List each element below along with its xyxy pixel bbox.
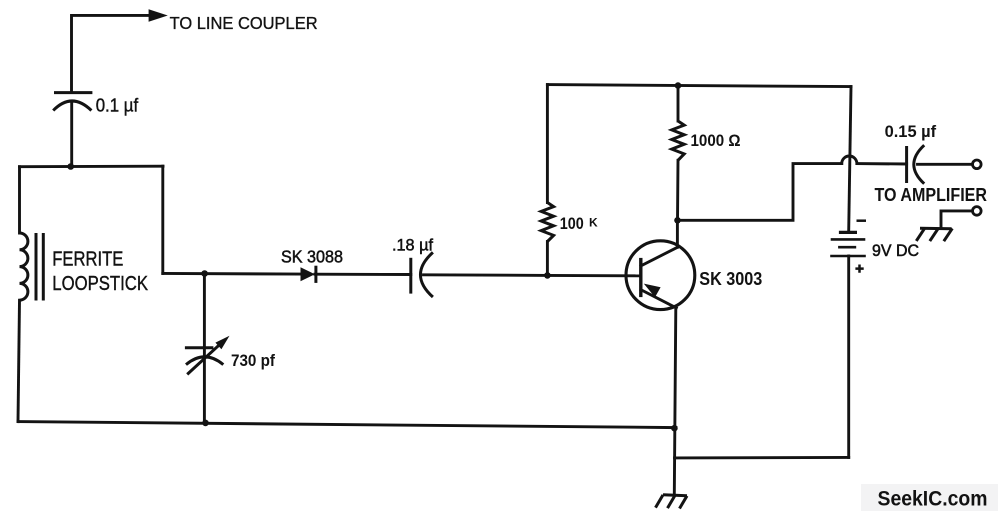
wire cap to tank top — [70, 103, 73, 167]
diode SK3088 — [301, 266, 316, 283]
chassis ground bottom — [656, 495, 688, 509]
svg-text:730 pf: 730 pf — [231, 351, 275, 370]
svg-text:SK 3088: SK 3088 — [281, 246, 343, 266]
wire base junction to transistor base — [547, 274, 640, 277]
node junction dot — [67, 163, 74, 170]
wire emitter down to ground — [674, 308, 676, 495]
svg-text:1000 Ω: 1000 Ω — [691, 131, 741, 150]
svg-text:0.1 µf: 0.1 µf — [96, 95, 139, 115]
transistor SK3003 — [626, 220, 695, 309]
wire top rail — [547, 85, 851, 87]
svg-text:.18 µf: .18 µf — [392, 236, 433, 254]
variable capacitor 730pf — [185, 336, 230, 375]
wire battery return to emitter — [675, 456, 849, 459]
wire tank to diode — [163, 272, 301, 276]
node junction dot — [674, 217, 681, 224]
battery 9V — [830, 232, 866, 256]
svg-text:SeekIC.com: SeekIC.com — [878, 487, 988, 511]
wire bottom rail — [18, 422, 676, 428]
resistor 1000 ohm — [672, 86, 684, 221]
wire lower terminal to ground — [941, 211, 973, 228]
capacitor 0.1uf — [53, 93, 92, 111]
wire variable cap to bottom rail — [203, 358, 206, 423]
wire output cap to terminal — [918, 163, 973, 166]
svg-text:LOOPSTICK: LOOPSTICK — [52, 272, 148, 295]
wire top-left vertical and horizontal to coupler arrow — [72, 15, 151, 92]
node junction dot — [675, 82, 682, 89]
capacitor .18uf — [411, 252, 433, 297]
node junction dot — [201, 270, 208, 277]
label minus — [857, 219, 867, 222]
wire diode to coupling cap — [315, 273, 411, 276]
label plus — [855, 265, 863, 273]
svg-text:9V DC: 9V DC — [872, 242, 919, 260]
wire battery positive down — [847, 256, 850, 457]
svg-text:K: K — [589, 215, 598, 229]
wire hop over battery line — [842, 156, 857, 164]
svg-text:TO AMPLIFIER: TO AMPLIFIER — [875, 184, 988, 205]
node junction dot — [202, 420, 209, 427]
svg-text:TO LINE COUPLER: TO LINE COUPLER — [170, 13, 318, 33]
terminal upper output — [973, 160, 982, 169]
svg-text:SK 3003: SK 3003 — [699, 268, 762, 289]
node junction dot — [671, 425, 678, 432]
arrowhead to line coupler — [149, 9, 168, 22]
chassis ground right — [916, 228, 952, 241]
wire hop to output cap — [857, 162, 907, 165]
capacitor 0.15uf — [907, 145, 925, 184]
inductor L1 ferrite loopstick — [18, 167, 43, 422]
resistor 100K — [541, 85, 553, 276]
wire collector to output network — [678, 164, 842, 221]
node junction dot — [544, 272, 551, 279]
wire top rail down to battery — [849, 87, 851, 231]
svg-text:0.15 µf: 0.15 µf — [885, 123, 937, 141]
svg-text:100: 100 — [560, 215, 584, 233]
svg-text:FERRITE: FERRITE — [52, 248, 123, 270]
watermark SeekIC.com — [861, 484, 998, 511]
wire junction down to variable cap — [203, 274, 206, 358]
wire tank top horizontal — [20, 165, 164, 168]
wire tank right vertical — [161, 166, 164, 273]
wire coupling cap to base junction — [424, 273, 548, 277]
terminal lower output — [973, 207, 982, 216]
